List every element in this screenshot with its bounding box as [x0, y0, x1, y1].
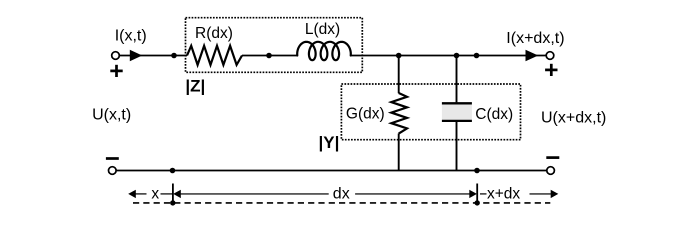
svg-text:I(x,t): I(x,t)	[115, 28, 147, 45]
dimension arrow left x	[128, 190, 146, 198]
dimension tick left	[172, 184, 174, 204]
svg-text:x+dx: x+dx	[487, 185, 520, 202]
junction node bottom-xdx	[474, 168, 480, 174]
dimension tick right	[476, 184, 478, 204]
plus sign right	[545, 64, 557, 76]
junction node bottom-x	[170, 168, 176, 174]
svg-text:|Z|: |Z|	[185, 77, 205, 96]
impedance box Z dotted	[186, 18, 363, 73]
minus sign right	[546, 156, 559, 159]
svg-text:x: x	[151, 186, 159, 203]
node x on axis	[170, 200, 175, 205]
axis dashed line	[133, 202, 550, 204]
svg-text:C(dx): C(dx)	[475, 106, 513, 123]
terminal bottom-left	[109, 167, 117, 175]
dimension arrow dx	[173, 190, 477, 198]
inductor L1 coil	[297, 42, 351, 60]
dimension segment x-tick	[161, 193, 173, 195]
junction node top-xdx	[474, 53, 480, 59]
capacitor C1	[442, 103, 472, 121]
svg-text:U(x,t): U(x,t)	[92, 107, 131, 124]
wire bottom return	[116, 170, 546, 172]
svg-text:U(x+dx,t): U(x+dx,t)	[541, 109, 606, 126]
svg-text:I(x+dx,t): I(x+dx,t)	[506, 30, 564, 47]
resistor R1 zigzag	[187, 46, 242, 65]
svg-text:L(dx): L(dx)	[305, 21, 340, 38]
terminal top-right	[546, 52, 554, 60]
dimension segment tick-xdx	[480, 193, 487, 195]
svg-text:G(dx): G(dx)	[346, 106, 385, 123]
current arrow I(x,t)	[130, 50, 142, 62]
terminal top-left	[112, 52, 120, 60]
junction node top-x	[171, 53, 177, 59]
wire top main	[119, 55, 546, 57]
minus sign left	[106, 157, 119, 160]
plus sign left	[110, 65, 122, 77]
svg-text:R(dx): R(dx)	[195, 25, 233, 42]
junction node R-L	[266, 53, 272, 59]
terminal bottom-right	[547, 167, 555, 175]
wire branch C vertical	[456, 56, 458, 171]
junction node C-top	[454, 53, 460, 59]
admittance box Y dotted	[341, 84, 520, 140]
svg-text:dx: dx	[333, 185, 350, 202]
wire branch G vertical	[398, 56, 400, 171]
resistor G1 vertical zigzag	[391, 93, 407, 134]
junction node G-top	[396, 53, 402, 59]
dimension arrow right	[530, 190, 559, 198]
current arrow I(x+dx,t)	[526, 50, 539, 62]
svg-text:|Y|: |Y|	[319, 133, 340, 152]
node x+dx on axis	[475, 200, 480, 205]
